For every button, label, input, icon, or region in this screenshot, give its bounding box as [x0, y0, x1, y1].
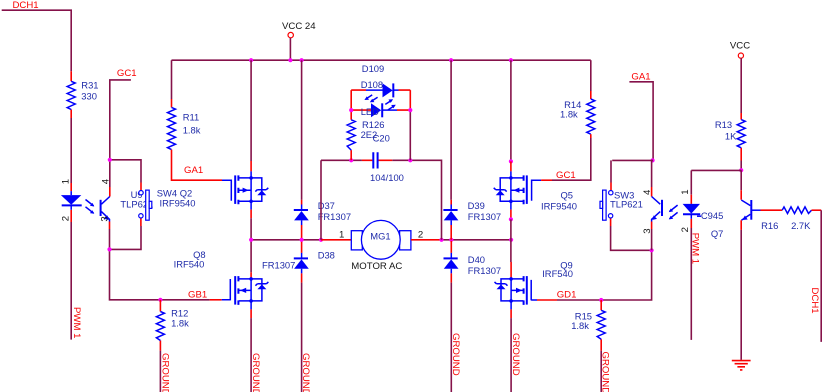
- resistor R12: [158, 298, 162, 302]
- wire top rail: [172, 59, 591, 61]
- wire rail to D37: [301, 60, 303, 200]
- resistor R11: [171, 99, 173, 107]
- wire GA1 down to SW3 node: [629, 82, 653, 161]
- wire LED block right leg: [409, 110, 411, 160]
- resistor R31: [70, 71, 72, 118]
- LED D109 row: [351, 90, 410, 110]
- optocoupler U9 LED (pins 1,2): [70, 183, 72, 222]
- wire rail to Q5: [510, 60, 512, 161]
- junction: [108, 158, 112, 162]
- diode D40 FR1307: [450, 241, 452, 253]
- wire GD1 row: [537, 299, 557, 301]
- wire node to LED: [691, 169, 741, 171]
- svg-text:Q7: Q7: [711, 228, 724, 239]
- wire SW3 bottom: [611, 226, 652, 250]
- resistor R16: [761, 209, 783, 211]
- wire snubber left leg: [320, 160, 322, 240]
- transistor Q9 IRF540 (N-MOSFET, mirrored): [510, 262, 512, 278]
- LED D109 arrows: [366, 95, 378, 101]
- svg-text:1.8k: 1.8k: [171, 318, 189, 329]
- svg-text:1: 1: [339, 230, 344, 241]
- ground symbol: [732, 361, 751, 370]
- svg-text:FR1307: FR1307: [468, 265, 501, 276]
- svg-text:VCC 24: VCC 24: [282, 21, 316, 32]
- svg-text:MG1: MG1: [370, 230, 390, 241]
- svg-text:IRF9540: IRF9540: [541, 201, 577, 212]
- svg-text:1.8k: 1.8k: [571, 320, 589, 331]
- svg-text:GROUND: GROUND: [300, 353, 311, 392]
- capacitor C20: [362, 159, 392, 161]
- optocoupler phototransistor (right, pins 4,3): [651, 187, 653, 229]
- wire GC1: [110, 80, 131, 160]
- svg-text:1.8k: 1.8k: [183, 124, 201, 135]
- wire DCH1 to R31: [2, 10, 72, 71]
- svg-text:1K: 1K: [725, 130, 737, 141]
- svg-text:GROUND: GROUND: [599, 352, 610, 392]
- motor MG1: [351, 231, 362, 250]
- svg-text:D40: D40: [468, 254, 485, 265]
- svg-text:Q5: Q5: [561, 190, 574, 201]
- svg-text:GC1: GC1: [556, 170, 576, 181]
- svg-text:2: 2: [60, 216, 71, 221]
- svg-text:GA1: GA1: [184, 165, 203, 176]
- wire D40 to ground: [450, 283, 452, 392]
- svg-text:GROUND: GROUND: [250, 353, 261, 392]
- diode D37 FR1307: [301, 200, 303, 205]
- svg-text:FR1307: FR1307: [468, 211, 501, 222]
- transistor Q2 IRF9540 (P-MOSFET): [222, 171, 268, 209]
- LED D108 row: [351, 109, 410, 111]
- optocoupler light arrows (right): [670, 205, 678, 219]
- svg-text:1: 1: [680, 189, 691, 194]
- svg-text:IRF540: IRF540: [174, 258, 205, 269]
- svg-text:4: 4: [642, 189, 653, 195]
- resistor R15: [600, 300, 602, 351]
- svg-text:1: 1: [60, 179, 71, 184]
- svg-text:PWM 1: PWM 1: [689, 233, 700, 264]
- svg-text:GA1: GA1: [631, 71, 650, 82]
- svg-text:2: 2: [680, 227, 691, 232]
- svg-text:D109: D109: [362, 63, 384, 74]
- wire LED down (right PWM 1): [690, 228, 692, 340]
- LED D108 arrows: [385, 100, 394, 110]
- svg-text:3: 3: [642, 228, 653, 233]
- svg-text:C945: C945: [701, 210, 723, 221]
- svg-text:DCH1: DCH1: [809, 288, 820, 314]
- svg-text:D39: D39: [468, 200, 485, 211]
- wire rail to R11: [171, 60, 173, 99]
- wire U9 pin3 down to GB1 row: [110, 229, 210, 300]
- svg-text:LED: LED: [361, 106, 379, 117]
- resistor R13: [740, 113, 742, 161]
- transistor Q7 C945 (NPN): [740, 190, 742, 200]
- svg-text:GROUND: GROUND: [159, 353, 170, 392]
- wire Q5 to motor row: [510, 210, 512, 220]
- wire U9 LED to PWM 1: [70, 222, 72, 340]
- svg-text:GROUND: GROUND: [450, 333, 461, 376]
- diode D39 FR1307: [450, 200, 452, 205]
- svg-text:4: 4: [100, 178, 111, 184]
- svg-text:TLP621: TLP621: [610, 198, 643, 209]
- svg-text:3: 3: [99, 216, 110, 221]
- wire R13 to node: [740, 161, 742, 171]
- junction: [107, 247, 111, 251]
- svg-text:GD1: GD1: [557, 289, 577, 300]
- wire GB1 red to Q8 gate: [210, 299, 222, 301]
- svg-text:FR1307: FR1307: [262, 260, 295, 271]
- svg-text:2: 2: [418, 230, 423, 241]
- svg-text:GB1: GB1: [188, 290, 207, 301]
- wire snubber row: [321, 160, 442, 240]
- LED of right optocoupler (C945 label, pins 1,2): [690, 170, 692, 194]
- svg-text:R13: R13: [715, 119, 732, 130]
- svg-text:VCC: VCC: [730, 40, 750, 51]
- wire SW4 bottom to U9 pin3: [110, 226, 142, 249]
- svg-text:R11: R11: [183, 111, 200, 122]
- switch SW4: [140, 183, 142, 227]
- wire R11 to GA1 row: [172, 150, 223, 181]
- wire rail to D39: [450, 60, 452, 200]
- svg-text:104/100: 104/100: [370, 172, 404, 183]
- wire node to SW3: [611, 160, 653, 187]
- optocoupler light arrows: [86, 200, 94, 214]
- switch SW3: [610, 183, 612, 227]
- svg-text:2E2: 2E2: [361, 129, 378, 140]
- svg-text:GROUND: GROUND: [510, 333, 521, 376]
- svg-text:R31: R31: [81, 80, 98, 91]
- wire R31 to U9 LED: [70, 118, 72, 183]
- optocoupler U9 phototransistor (pins 4,3): [109, 187, 111, 229]
- wire motor row left: [251, 239, 321, 241]
- svg-text:330: 330: [81, 90, 97, 101]
- wire Q8 source to ground: [250, 309, 252, 318]
- wire rail to Q2: [250, 60, 252, 161]
- svg-text:FR1307: FR1307: [318, 211, 351, 222]
- svg-text:D38: D38: [318, 249, 335, 260]
- resistor R126: [350, 110, 352, 160]
- svg-text:IRF540: IRF540: [542, 268, 573, 279]
- svg-text:1.8k: 1.8k: [560, 109, 578, 120]
- svg-text:IRF9540: IRF9540: [160, 197, 196, 208]
- svg-text:R16: R16: [761, 220, 778, 231]
- resistor R14: [590, 60, 592, 91]
- wire node to Q7: [740, 170, 742, 190]
- transistor Q5 IRF9540 (P-MOSFET, mirrored): [494, 171, 541, 209]
- wire Q2 source to motor row: [250, 210, 252, 219]
- diode D38 FR1307: [301, 241, 303, 253]
- svg-text:MOTOR AC: MOTOR AC: [351, 261, 402, 272]
- wire GC1 row: [541, 179, 552, 181]
- wire D38 to ground: [301, 283, 303, 392]
- transistor Q8 IRF540 (N-MOSFET): [250, 272, 252, 277]
- wire Q9 source to ground: [510, 309, 512, 318]
- svg-text:D108: D108: [361, 79, 383, 90]
- wire R16 to DCH1: [820, 210, 822, 342]
- svg-text:2.7K: 2.7K: [791, 220, 811, 231]
- svg-text:GC1: GC1: [117, 68, 137, 79]
- svg-text:PWM 1: PWM 1: [71, 307, 82, 338]
- wire node GC1 to SW4: [110, 160, 141, 187]
